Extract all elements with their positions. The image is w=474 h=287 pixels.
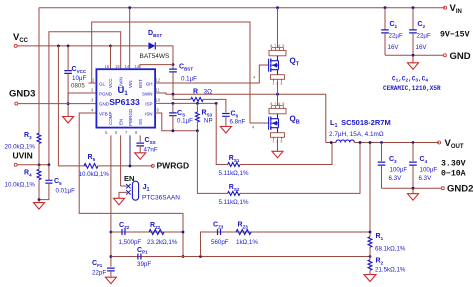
svg-text:16V: 16V bbox=[388, 44, 400, 51]
node junction RS3 bottom bbox=[196, 129, 199, 132]
label SWN bbox=[142, 91, 153, 96]
label RZ2 bbox=[150, 222, 161, 230]
wire QT source to SWN bbox=[277, 82, 279, 95]
wire SWN pin11 row bbox=[155, 93, 326, 143]
svg-text:7: 7 bbox=[274, 44, 276, 48]
node junction C5 on UVIN wire bbox=[48, 163, 51, 166]
node junction C4 column bbox=[412, 141, 415, 144]
wire R to C6 bbox=[203, 99, 226, 112]
label GND2 terminal bbox=[447, 184, 473, 195]
wire VCC pin 16 column bbox=[110, 46, 112, 69]
label CP1 bbox=[137, 247, 148, 255]
svg-text:PGND: PGND bbox=[99, 91, 113, 96]
jumper J1 body bbox=[132, 181, 138, 200]
resistor R4 bbox=[37, 165, 41, 200]
wire snubber R branch bbox=[173, 94, 191, 99]
terminal PWRGD bbox=[151, 164, 154, 167]
wire GH pin12 to QT gate bbox=[155, 65, 269, 83]
wire VIN pin 14 column bbox=[129, 8, 131, 69]
label VCC terminal bbox=[13, 32, 29, 44]
label GND3 terminal bbox=[9, 89, 35, 100]
svg-text:10: 10 bbox=[156, 98, 161, 103]
wire CZ2 RZ2 branch bbox=[111, 231, 183, 233]
label GND bbox=[99, 101, 110, 106]
node junction CVCC column on VCC wire bbox=[67, 45, 70, 48]
pin 9 ISN bbox=[157, 108, 160, 113]
svg-text:22µF: 22µF bbox=[417, 33, 431, 40]
svg-text:VFB: VFB bbox=[99, 111, 108, 116]
svg-text:0805: 0805 bbox=[71, 83, 85, 90]
label DBST bbox=[148, 30, 162, 38]
svg-text:5: 5 bbox=[282, 44, 284, 48]
resistor R1 bbox=[368, 237, 372, 247]
capacitor CZ3 bbox=[218, 229, 221, 235]
svg-text:GND2: GND2 bbox=[447, 184, 473, 195]
label CF1 bbox=[92, 260, 103, 268]
svg-text:SS: SS bbox=[138, 119, 143, 125]
ground below R4/C5 bbox=[34, 200, 45, 210]
ground below CVCC bbox=[63, 117, 74, 124]
svg-text:1: 1 bbox=[272, 81, 274, 85]
value R2 bbox=[375, 267, 406, 274]
label SP6133 bbox=[109, 97, 140, 107]
terminal VOUT bbox=[438, 141, 441, 144]
label EN bbox=[124, 174, 134, 183]
wire GND2 row bbox=[382, 187, 442, 189]
value CBST 0.1uF bbox=[181, 76, 197, 83]
label QT bbox=[290, 57, 300, 68]
wire VCC to diode anode bbox=[111, 45, 148, 47]
wire C1 column bbox=[384, 8, 386, 30]
wire PGND pin2 to ground column bbox=[68, 93, 96, 104]
label COMP pin bbox=[108, 112, 113, 126]
terminal GND input bbox=[443, 54, 446, 57]
label RS3 bbox=[202, 110, 213, 118]
node junction R5 pullup column on VCC wire bbox=[57, 45, 60, 48]
svg-text:C1,C2,C3,C4: C1,C2,C3,C4 bbox=[392, 76, 428, 84]
wire QB source to ground bbox=[277, 140, 279, 152]
svg-text:UVIN: UVIN bbox=[13, 151, 33, 161]
label ISN bbox=[145, 111, 153, 116]
label BST pin bbox=[138, 79, 143, 88]
capacitor CVCC bbox=[64, 46, 72, 117]
resistor RS3 bbox=[196, 103, 200, 130]
label J1 bbox=[143, 182, 150, 193]
value CS 0.1uF bbox=[177, 118, 193, 125]
label VIN pin bbox=[128, 80, 133, 88]
svg-text:3.30V: 3.30V bbox=[441, 160, 466, 169]
ground below CF1 bbox=[105, 277, 116, 284]
label VCC pin bbox=[108, 78, 113, 88]
value R 3ohm bbox=[204, 89, 213, 96]
pin 7 number bbox=[125, 130, 128, 135]
svg-text:10µF: 10µF bbox=[72, 75, 86, 82]
label GND terminal bbox=[450, 51, 471, 62]
node junction VCC pin16 on VCC wire bbox=[109, 45, 112, 48]
svg-text:0−10A: 0−10A bbox=[441, 170, 466, 179]
ground below C6 bbox=[220, 127, 231, 134]
node junction C2 column on rail bbox=[412, 6, 415, 9]
svg-text:23.2kΩ,1%: 23.2kΩ,1% bbox=[147, 239, 178, 246]
node junction CZ3 branch bbox=[199, 255, 202, 258]
label RS2 bbox=[229, 184, 240, 192]
ground below R2 bbox=[364, 275, 376, 282]
label R snubber bbox=[193, 89, 198, 96]
terminal VCC bbox=[14, 44, 110, 47]
wire GL pin1 over IC to QB gate bbox=[89, 22, 269, 123]
label R5 bbox=[88, 154, 96, 162]
value R1 bbox=[375, 246, 406, 253]
svg-text:21.5kΩ,1%: 21.5kΩ,1% bbox=[375, 267, 406, 274]
svg-text:20.0kΩ,1%: 20.0kΩ,1% bbox=[5, 144, 36, 151]
pin 3 GND stub bbox=[91, 98, 94, 103]
label C6 bbox=[231, 111, 239, 119]
resistor R3 bbox=[37, 133, 41, 143]
node junction R4 C5 ground bbox=[38, 198, 41, 201]
node junction C1 column on rail bbox=[384, 6, 387, 9]
capacitor CF1 bbox=[107, 268, 115, 277]
terminal GND2 bbox=[441, 187, 444, 190]
wire R5 to PWRGD terminal bbox=[98, 165, 153, 167]
pin 8 number bbox=[135, 130, 138, 135]
label CVCC bbox=[72, 66, 87, 74]
node junction RS2 column bbox=[359, 141, 362, 144]
svg-text:5.11kΩ,1%: 5.11kΩ,1% bbox=[219, 199, 249, 206]
label R2 bbox=[376, 258, 384, 266]
node junction CBST on SWN bbox=[172, 93, 175, 96]
node junction C3 column bbox=[380, 141, 383, 144]
resistor RS1 bbox=[228, 163, 240, 167]
label R4 bbox=[24, 170, 32, 178]
svg-text:UVIN: UVIN bbox=[118, 77, 123, 88]
label CBST bbox=[179, 64, 193, 72]
svg-text:COMP: COMP bbox=[108, 112, 113, 126]
label VOUT terminal bbox=[445, 138, 464, 150]
label UVIN pin bbox=[118, 77, 123, 88]
node junction R1 column bbox=[369, 141, 372, 144]
svg-text:SWN: SWN bbox=[142, 91, 153, 96]
resistor R2 bbox=[368, 257, 372, 275]
svg-text:BST: BST bbox=[138, 79, 143, 88]
resistor R snubber bbox=[191, 97, 203, 101]
wire CZ3 RZ3 branch bbox=[201, 232, 371, 257]
svg-text:1,500pF: 1,500pF bbox=[119, 239, 142, 246]
svg-text:22pF: 22pF bbox=[92, 270, 106, 277]
resistor RZ2 bbox=[149, 230, 164, 235]
svg-text:14: 14 bbox=[125, 64, 130, 69]
svg-text:7: 7 bbox=[274, 102, 276, 106]
resistor R5 bbox=[84, 164, 98, 169]
svg-text:SC5018-2R7M: SC5018-2R7M bbox=[339, 118, 391, 127]
svg-text:10.0kΩ,1%: 10.0kΩ,1% bbox=[5, 182, 36, 189]
wire ISN pin9 row bbox=[155, 113, 197, 131]
node junction QT drain column on rail bbox=[276, 6, 279, 9]
capacitor C3 bbox=[378, 162, 386, 188]
svg-text:9V−15V: 9V−15V bbox=[440, 31, 470, 40]
svg-text:1kΩ,1%: 1kΩ,1% bbox=[236, 239, 258, 246]
value C1 16V bbox=[388, 44, 400, 51]
value C3 100uF bbox=[390, 167, 408, 174]
capacitor CS bbox=[169, 103, 177, 130]
node junction R3R4 on UVIN wire bbox=[38, 163, 41, 166]
ground below GND2 bbox=[408, 188, 419, 200]
node junction COMP/CZ2 bbox=[110, 231, 113, 234]
wire UVIN pin15 from divider bbox=[49, 32, 121, 165]
terminal UVIN bbox=[14, 163, 49, 166]
value C2 16V bbox=[416, 44, 428, 51]
wire ISN down to RS2 bbox=[197, 131, 227, 194]
value CVCC 0805 bbox=[71, 83, 85, 90]
pin 4 VFB stub bbox=[91, 108, 94, 113]
svg-text:6.3V: 6.3V bbox=[419, 175, 433, 182]
wire VIN rail to QT drain bbox=[277, 8, 279, 45]
note ceramic bbox=[383, 85, 441, 92]
value C4 6.3V bbox=[419, 175, 433, 182]
transistor QB bbox=[269, 102, 286, 144]
svg-text:15: 15 bbox=[115, 64, 120, 69]
svg-text:ISP: ISP bbox=[145, 101, 152, 106]
value C6 6.8nF bbox=[230, 119, 246, 126]
label RS1 bbox=[229, 155, 240, 163]
ground below J1 bbox=[114, 198, 125, 205]
svg-text:NP: NP bbox=[204, 118, 213, 125]
node junction CS top bbox=[172, 102, 175, 105]
svg-text:6.3V: 6.3V bbox=[389, 175, 403, 182]
capacitor CBST bbox=[169, 65, 177, 95]
inductor L1 bbox=[326, 140, 439, 143]
svg-text:VIN: VIN bbox=[128, 80, 133, 88]
node junction RZ3 top of R1 bbox=[369, 231, 372, 234]
value C1 22uF bbox=[389, 33, 403, 40]
svg-text:VCC: VCC bbox=[108, 78, 113, 88]
svg-text:6: 6 bbox=[278, 102, 280, 106]
wire VIN rail from R3 top across to VIN terminal bbox=[39, 7, 445, 9]
wire ISP down to RS1 bbox=[216, 103, 227, 164]
label ISP bbox=[145, 101, 152, 106]
value BAT54WS bbox=[140, 53, 171, 60]
node junction PGND/GND3 on ground column bbox=[67, 102, 70, 105]
label C2 bbox=[418, 21, 426, 29]
value CVCC 10uF bbox=[72, 75, 86, 82]
wire VFB net to R1 R2 midpoint bbox=[183, 256, 370, 258]
svg-text:12: 12 bbox=[156, 78, 161, 83]
svg-text:2.7µH, 15A, 4.1mΩ: 2.7µH, 15A, 4.1mΩ bbox=[329, 131, 384, 138]
wire C4 column bbox=[412, 143, 414, 162]
pin 5 number bbox=[105, 130, 108, 135]
svg-text:R: R bbox=[193, 89, 198, 96]
transistor QT bbox=[269, 44, 286, 86]
value RS1 bbox=[219, 170, 249, 177]
wire R3 to UVIN bbox=[38, 144, 40, 165]
label CZ3 bbox=[213, 222, 224, 230]
wire VOUT column down to R1 bbox=[369, 143, 371, 237]
label R3 bbox=[24, 132, 32, 140]
svg-text:13: 13 bbox=[135, 64, 140, 69]
capacitor CZ2 bbox=[122, 229, 125, 235]
label GH bbox=[146, 81, 153, 86]
node junction C2 gnd bbox=[412, 54, 415, 57]
wire R5 pullup column VCC down to R5 row bbox=[58, 46, 87, 166]
value R4 bbox=[5, 182, 36, 189]
svg-text:560pF: 560pF bbox=[211, 239, 229, 246]
value CF1 22pF bbox=[92, 270, 106, 277]
ground below CSS bbox=[135, 153, 146, 160]
svg-text:3Ω: 3Ω bbox=[204, 89, 213, 96]
svg-text:3: 3 bbox=[280, 139, 282, 143]
pin 11 SWN bbox=[156, 88, 161, 93]
label C5 bbox=[54, 178, 62, 186]
svg-text:68.1kΩ,1%: 68.1kΩ,1% bbox=[375, 246, 406, 253]
capacitor C5 bbox=[39, 165, 53, 200]
svg-text:0.01µF: 0.01µF bbox=[56, 188, 76, 195]
wire R3 column from VIN rail down to R3 bbox=[38, 8, 40, 134]
svg-text:5.11kΩ,1%: 5.11kΩ,1% bbox=[219, 170, 249, 177]
value C2 22uF bbox=[417, 33, 431, 40]
wire SS pin8 column to CSS bbox=[139, 135, 141, 142]
value RS2 bbox=[219, 199, 249, 206]
node junction VIN pin14 column on rail bbox=[128, 6, 131, 9]
node junction R1 R2 midpoint bbox=[369, 255, 372, 258]
node junction ISP to RS1 bbox=[215, 102, 218, 105]
pin 13 number bbox=[135, 64, 140, 69]
ground below QB bbox=[272, 151, 283, 158]
svg-text:GND3: GND3 bbox=[9, 89, 35, 100]
pin 15 number bbox=[115, 64, 120, 69]
svg-text:11: 11 bbox=[156, 88, 161, 93]
jumper J1 pin2 x bbox=[126, 190, 130, 194]
label VFB bbox=[99, 111, 108, 116]
label UVIN terminal bbox=[13, 151, 33, 161]
label PWRGD terminal bbox=[157, 161, 190, 171]
value 9V-15V bbox=[440, 31, 470, 40]
label QB bbox=[290, 115, 300, 126]
svg-text:CERAMIC,1210,X5R: CERAMIC,1210,X5R bbox=[383, 85, 441, 92]
value C4 100uF bbox=[420, 167, 438, 174]
resistor RZ3 bbox=[236, 230, 251, 235]
svg-text:PWRGD: PWRGD bbox=[157, 161, 190, 171]
value CZ3 560pF bbox=[211, 239, 229, 246]
node junction QB drain on SWN bbox=[276, 93, 279, 96]
svg-text:PWRGD: PWRGD bbox=[128, 108, 133, 126]
label CZ2 bbox=[119, 222, 130, 230]
pin 4 label QT gate bbox=[253, 75, 256, 80]
value C3 6.3V bbox=[389, 175, 403, 182]
svg-text:8: 8 bbox=[270, 102, 272, 106]
svg-text:16V: 16V bbox=[416, 44, 428, 51]
svg-text:8: 8 bbox=[270, 44, 272, 48]
diode DBST BAT54WS bbox=[148, 42, 173, 64]
svg-text:39pF: 39pF bbox=[137, 261, 151, 268]
node junction PWRGD pin column bbox=[129, 165, 132, 168]
node junction RS3 top bbox=[196, 102, 199, 105]
svg-text:ISN: ISN bbox=[145, 111, 153, 116]
svg-text:100µF: 100µF bbox=[390, 167, 408, 174]
svg-text:SP6133: SP6133 bbox=[109, 97, 140, 107]
label GL bbox=[99, 81, 106, 86]
value RS3 NP bbox=[204, 118, 213, 125]
wire QB drain stub bbox=[277, 94, 279, 102]
svg-text:GH: GH bbox=[146, 81, 153, 86]
terminal VIN bbox=[444, 6, 447, 9]
node junction COMP/CP1 bbox=[110, 255, 113, 258]
node junction C4 gnd2 bbox=[412, 187, 415, 190]
pin 10 ISP bbox=[156, 98, 161, 103]
label CS bbox=[177, 110, 185, 118]
value R3 bbox=[5, 144, 36, 151]
capacitor C6 bbox=[222, 114, 230, 127]
svg-text:GND: GND bbox=[450, 51, 471, 62]
node junction BST/CBST bbox=[172, 63, 175, 66]
node junction RS1 column bbox=[330, 141, 333, 144]
terminal GND3 bbox=[15, 102, 97, 105]
capacitor C2 bbox=[409, 30, 417, 55]
wire C3 column bbox=[381, 143, 383, 162]
label PWRGD pin bbox=[128, 108, 133, 126]
svg-text:GL: GL bbox=[99, 81, 106, 86]
svg-text:16: 16 bbox=[105, 64, 110, 69]
value CP1 39pF bbox=[137, 261, 151, 268]
svg-text:0.1µF: 0.1µF bbox=[177, 118, 193, 125]
label C3 bbox=[389, 156, 397, 164]
value R5 bbox=[79, 171, 110, 178]
label L1 bbox=[330, 118, 391, 129]
op-amp U1 SP6133 body bbox=[96, 69, 155, 127]
svg-text:PTC36SAAN: PTC36SAAN bbox=[142, 195, 180, 202]
label CSS bbox=[145, 137, 156, 145]
svg-text:0.1µF: 0.1µF bbox=[181, 76, 197, 83]
label RZ3 bbox=[238, 222, 249, 230]
wire R1 to midpoint bbox=[369, 247, 371, 256]
svg-text:1: 1 bbox=[272, 139, 274, 143]
jumper J1 pin1 x bbox=[126, 184, 130, 188]
label C1 bbox=[390, 21, 398, 29]
resistor RS2 bbox=[228, 191, 240, 195]
pin 2 PGND stub bbox=[91, 88, 94, 93]
label C4 bbox=[420, 156, 428, 164]
label PGND bbox=[99, 91, 113, 96]
svg-text:5: 5 bbox=[282, 102, 284, 106]
label R1 bbox=[376, 233, 384, 241]
wire PWRGD pin7 column bbox=[129, 135, 131, 166]
label U1 bbox=[118, 85, 129, 97]
pin 1 GL stub bbox=[89, 78, 97, 84]
value CZ2 1500pF bbox=[119, 239, 142, 246]
node junction CS bottom bbox=[172, 129, 175, 132]
value CSS 47nF bbox=[144, 147, 158, 154]
pin 4 label QB gate bbox=[252, 125, 255, 130]
wire J1 pin2 to ground bbox=[119, 192, 127, 198]
wire ISP pin10 row bbox=[155, 102, 216, 104]
value RZ3 1k bbox=[236, 239, 258, 246]
label EN pin bbox=[118, 119, 123, 125]
svg-text:EN: EN bbox=[118, 119, 123, 125]
wire C2 column bbox=[412, 8, 414, 30]
pin 14 number bbox=[125, 64, 130, 69]
pin 6 number bbox=[115, 130, 118, 135]
value 3.30V bbox=[441, 160, 466, 169]
svg-text:10.0kΩ,1%: 10.0kΩ,1% bbox=[79, 171, 110, 178]
capacitor CP1 bbox=[138, 254, 141, 260]
capacitor C4 bbox=[409, 162, 417, 188]
svg-text:6.8nF: 6.8nF bbox=[230, 119, 246, 126]
capacitor CSS bbox=[136, 143, 144, 153]
wire VFB pin4 down to compensation bbox=[79, 113, 183, 257]
value L1 bbox=[329, 131, 384, 138]
wire GND input row bbox=[385, 54, 443, 56]
pin 16 number bbox=[105, 64, 110, 69]
node junction VFB/RZ2 bbox=[182, 231, 185, 234]
wire RS2 to VOUT bbox=[240, 143, 360, 194]
